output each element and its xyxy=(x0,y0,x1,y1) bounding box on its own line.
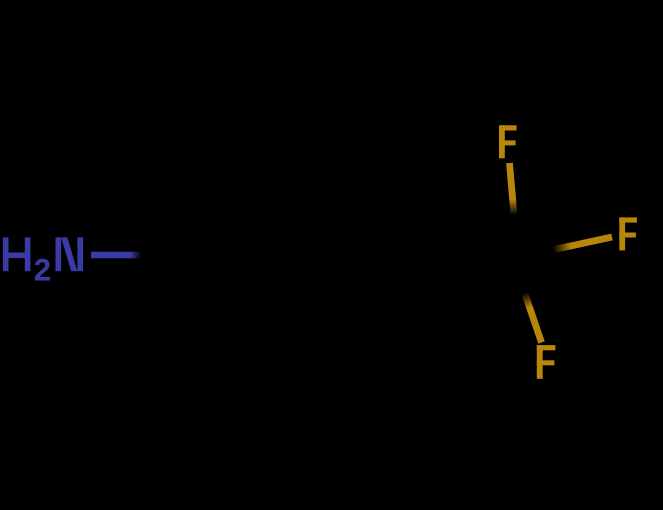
svg-text:2: 2 xyxy=(34,253,51,288)
